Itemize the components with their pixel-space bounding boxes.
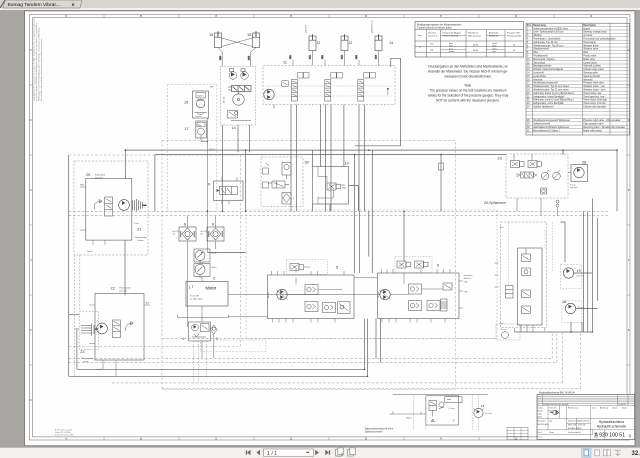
flushing valve 22 — [113, 320, 121, 338]
ports 20 — [80, 187, 105, 245]
brake 21 — [133, 199, 147, 231]
dashed housing around 19 — [560, 264, 582, 289]
relief cartridge 7d — [522, 306, 531, 314]
internal gallery lines — [266, 86, 392, 96]
water shut-off valve — [429, 401, 437, 422]
steering feed risers — [125, 105, 617, 363]
relief valve 5c — [323, 303, 336, 313]
gauge 2b — [194, 264, 216, 281]
chip spreader pump dashed box — [496, 324, 520, 340]
steering cylinder 15 right — [247, 31, 260, 47]
ports 5 top — [272, 271, 345, 275]
internal dashed risers 7 — [509, 222, 553, 285]
flushing valve 20 — [105, 197, 113, 216]
relief valve 5d — [338, 302, 351, 314]
brake 23 — [75, 311, 99, 354]
solenoid valve 29b — [528, 161, 542, 168]
pilot ball valve — [439, 402, 444, 409]
tab shape — [0, 0, 82, 8]
pilot solenoid box 6 — [395, 257, 432, 273]
collecting block 4 — [182, 322, 218, 341]
swash arrow 22 — [126, 322, 134, 332]
section valve 11.1 — [292, 73, 310, 102]
filter 8 right — [201, 223, 225, 242]
spool valve 29 — [517, 172, 537, 178]
engine 1 — [186, 282, 228, 307]
bottom-left print info text — [55, 429, 74, 437]
page number box — [264, 449, 314, 457]
gallery 5 — [288, 269, 343, 295]
pilot solenoid box 5 — [287, 260, 328, 275]
machine frame inner — [246, 210, 497, 338]
wires 29/28 — [514, 150, 571, 215]
wires detail group — [390, 411, 426, 414]
dashed housing around 18 — [562, 301, 582, 322]
servo valve 6b — [409, 301, 422, 311]
ports 7 left — [495, 263, 499, 287]
wire cyl15 to valve 14 — [218, 48, 256, 67]
thermostat check 3 — [210, 325, 217, 334]
section valve 11.3 — [358, 73, 376, 102]
dashed return bus — [69, 333, 581, 389]
pilot dashed bus upper — [69, 211, 610, 215]
servo valve 6a — [409, 284, 422, 294]
relief valve 6c — [427, 301, 440, 311]
charge line bus — [69, 319, 593, 377]
ports 22 — [89, 305, 150, 376]
wire 16/17 drop — [201, 118, 208, 253]
shock valve 14a — [229, 69, 237, 80]
servo valve 5a — [305, 285, 318, 295]
control block 11 boundary — [263, 61, 395, 109]
swash arrow 20 — [94, 200, 102, 210]
steering cylinder 15 left — [209, 31, 222, 47]
orifice box — [445, 397, 462, 403]
wires cylinders to block 11 — [290, 51, 379, 66]
ports 30 — [263, 163, 270, 188]
wires engine group — [178, 216, 381, 359]
drain ports 29 — [556, 200, 559, 207]
check valve 29 — [541, 188, 547, 194]
switch valve 30 — [268, 181, 289, 188]
nav next/last buttons — [315, 450, 330, 455]
crossed hoses between cylinders 15 — [222, 38, 253, 47]
toolbar — [0, 447, 640, 458]
steering unit spool 14 — [228, 86, 251, 92]
right page-layout icons — [582, 448, 640, 457]
chip spreader motor 28 — [570, 161, 588, 190]
section valve 11.2 — [325, 73, 343, 102]
ports 6 bottom/right — [382, 281, 463, 323]
motor circle 20 — [119, 200, 130, 211]
block 11 port P — [274, 89, 388, 109]
steering wheel 14 — [233, 92, 244, 106]
gauge 2a — [194, 249, 217, 264]
ports 5 bottom — [273, 319, 336, 323]
relief cartridge 7c — [522, 290, 531, 298]
view mode icons (center) — [336, 448, 356, 457]
right risers — [355, 58, 617, 332]
spreader motor small 18 — [474, 408, 483, 417]
vibration motor front 19 — [563, 268, 583, 278]
solenoid valve 10 — [327, 183, 341, 190]
accumulator 30 — [282, 163, 291, 180]
small revision grid left of title block — [507, 428, 528, 440]
machine frame centre — [162, 141, 456, 390]
dashed boundary around 16/17 — [168, 85, 217, 212]
vibration motor rear 18 — [562, 300, 584, 314]
left margin rotated disclaimer text — [33, 18, 44, 101]
nav first-page button — [246, 450, 260, 455]
solenoid valve 29a — [511, 161, 525, 168]
servo valve 5b — [305, 302, 318, 312]
gallery 6 — [391, 269, 444, 295]
relief valve 17 — [185, 121, 207, 139]
relief valve 14 — [228, 111, 238, 119]
chip spreader cylinder 24 — [371, 20, 394, 51]
main pump 6 — [380, 289, 390, 299]
pilot relief 11 — [282, 81, 289, 87]
svg-text:1 / 1: 1 / 1 — [267, 451, 277, 457]
bottom water shut-off detail group — [390, 395, 492, 430]
left risers — [69, 155, 80, 376]
accumulator 6 — [441, 299, 448, 311]
main pump 5 — [277, 289, 287, 299]
small check 6 — [443, 283, 452, 290]
ports 6 top — [382, 269, 451, 273]
filter 8 left — [173, 223, 197, 242]
pilot pump 11 — [264, 89, 274, 99]
steering valve block 14 — [221, 66, 256, 130]
sidewalk cylinder 12 — [341, 34, 352, 50]
flow control 29b — [553, 170, 561, 180]
tank boundary dashed box — [201, 340, 266, 352]
shock valve 14b — [241, 69, 249, 80]
motor circle 22 — [97, 323, 108, 334]
bomag logo mark — [550, 411, 559, 415]
spool 7 — [506, 286, 514, 299]
vibromat 16 — [184, 91, 209, 118]
filter 30 — [282, 193, 291, 205]
svg-text:32.5: 32.5 — [632, 451, 640, 457]
edge-cutter cylinder 13 — [305, 25, 321, 51]
shuttle 7b — [522, 268, 531, 276]
flow control 29a — [541, 170, 549, 180]
tab bar — [0, 0, 640, 8]
relief cartridge 7a — [522, 248, 531, 262]
machine frame rear — [69, 155, 241, 347]
